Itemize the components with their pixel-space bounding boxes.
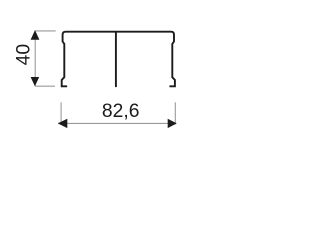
- dimension line vertical: [34, 31, 36, 87]
- arrow right: [168, 119, 177, 128]
- extension line top: [35, 30, 55, 32]
- extension line bottom: [35, 85, 55, 87]
- arrow left: [58, 119, 68, 128]
- extension line left: [60, 102, 62, 124]
- svg-text:82,6: 82,6: [102, 101, 140, 122]
- svg-text:40: 40: [13, 44, 34, 65]
- profile outline (aluminium cover section): [62, 32, 175, 87]
- dimension line horizontal: [59, 122, 177, 124]
- center fin / web: [115, 32, 117, 87]
- arrow up: [31, 30, 40, 40]
- arrow down: [31, 77, 40, 86]
- extension line right: [174, 102, 176, 124]
